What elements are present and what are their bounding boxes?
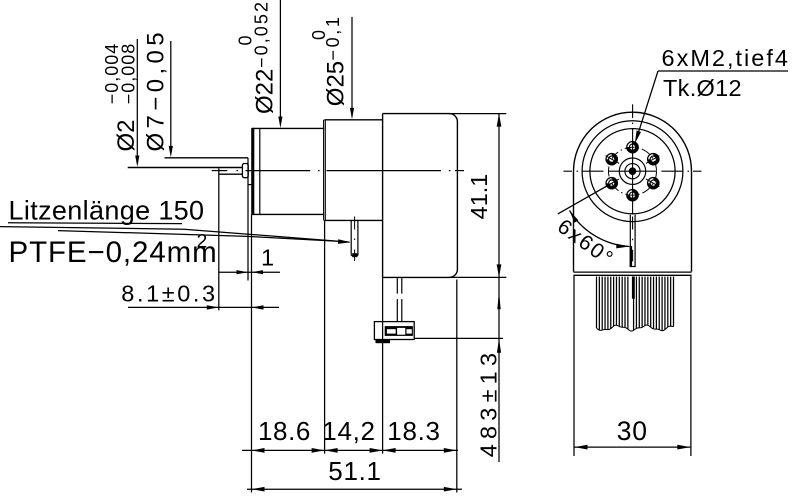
svg-text:0: 0: [236, 35, 256, 45]
svg-text:14,2: 14,2: [322, 416, 375, 446]
svg-text:8.1±0.3: 8.1±0.3: [121, 281, 217, 307]
svg-text:483±13: 483±13: [476, 348, 502, 457]
svg-text:Litzenlänge 150: Litzenlänge 150: [9, 196, 205, 226]
svg-text:Ø7−0,05: Ø7−0,05: [142, 28, 169, 152]
svg-text:Ø25: Ø25: [322, 61, 349, 106]
svg-text:Ø2: Ø2: [113, 119, 140, 151]
svg-text:Ø22: Ø22: [252, 69, 279, 114]
svg-text:6xM2,tief4: 6xM2,tief4: [662, 45, 790, 71]
svg-text:18.3: 18.3: [387, 416, 440, 446]
svg-text:51.1: 51.1: [328, 456, 381, 486]
svg-text:2: 2: [197, 231, 208, 253]
svg-text:−0,008: −0,008: [118, 43, 138, 105]
svg-text:41.1: 41.1: [466, 174, 492, 220]
svg-text:PTFE−0,24mm: PTFE−0,24mm: [9, 236, 218, 269]
svg-text:1: 1: [261, 244, 274, 270]
svg-text:18.6: 18.6: [258, 416, 311, 446]
svg-text:−0,052: −0,052: [252, 0, 272, 68]
svg-text:0: 0: [309, 30, 329, 40]
svg-text:Tk.Ø12: Tk.Ø12: [663, 75, 742, 101]
svg-text:30: 30: [617, 416, 648, 446]
